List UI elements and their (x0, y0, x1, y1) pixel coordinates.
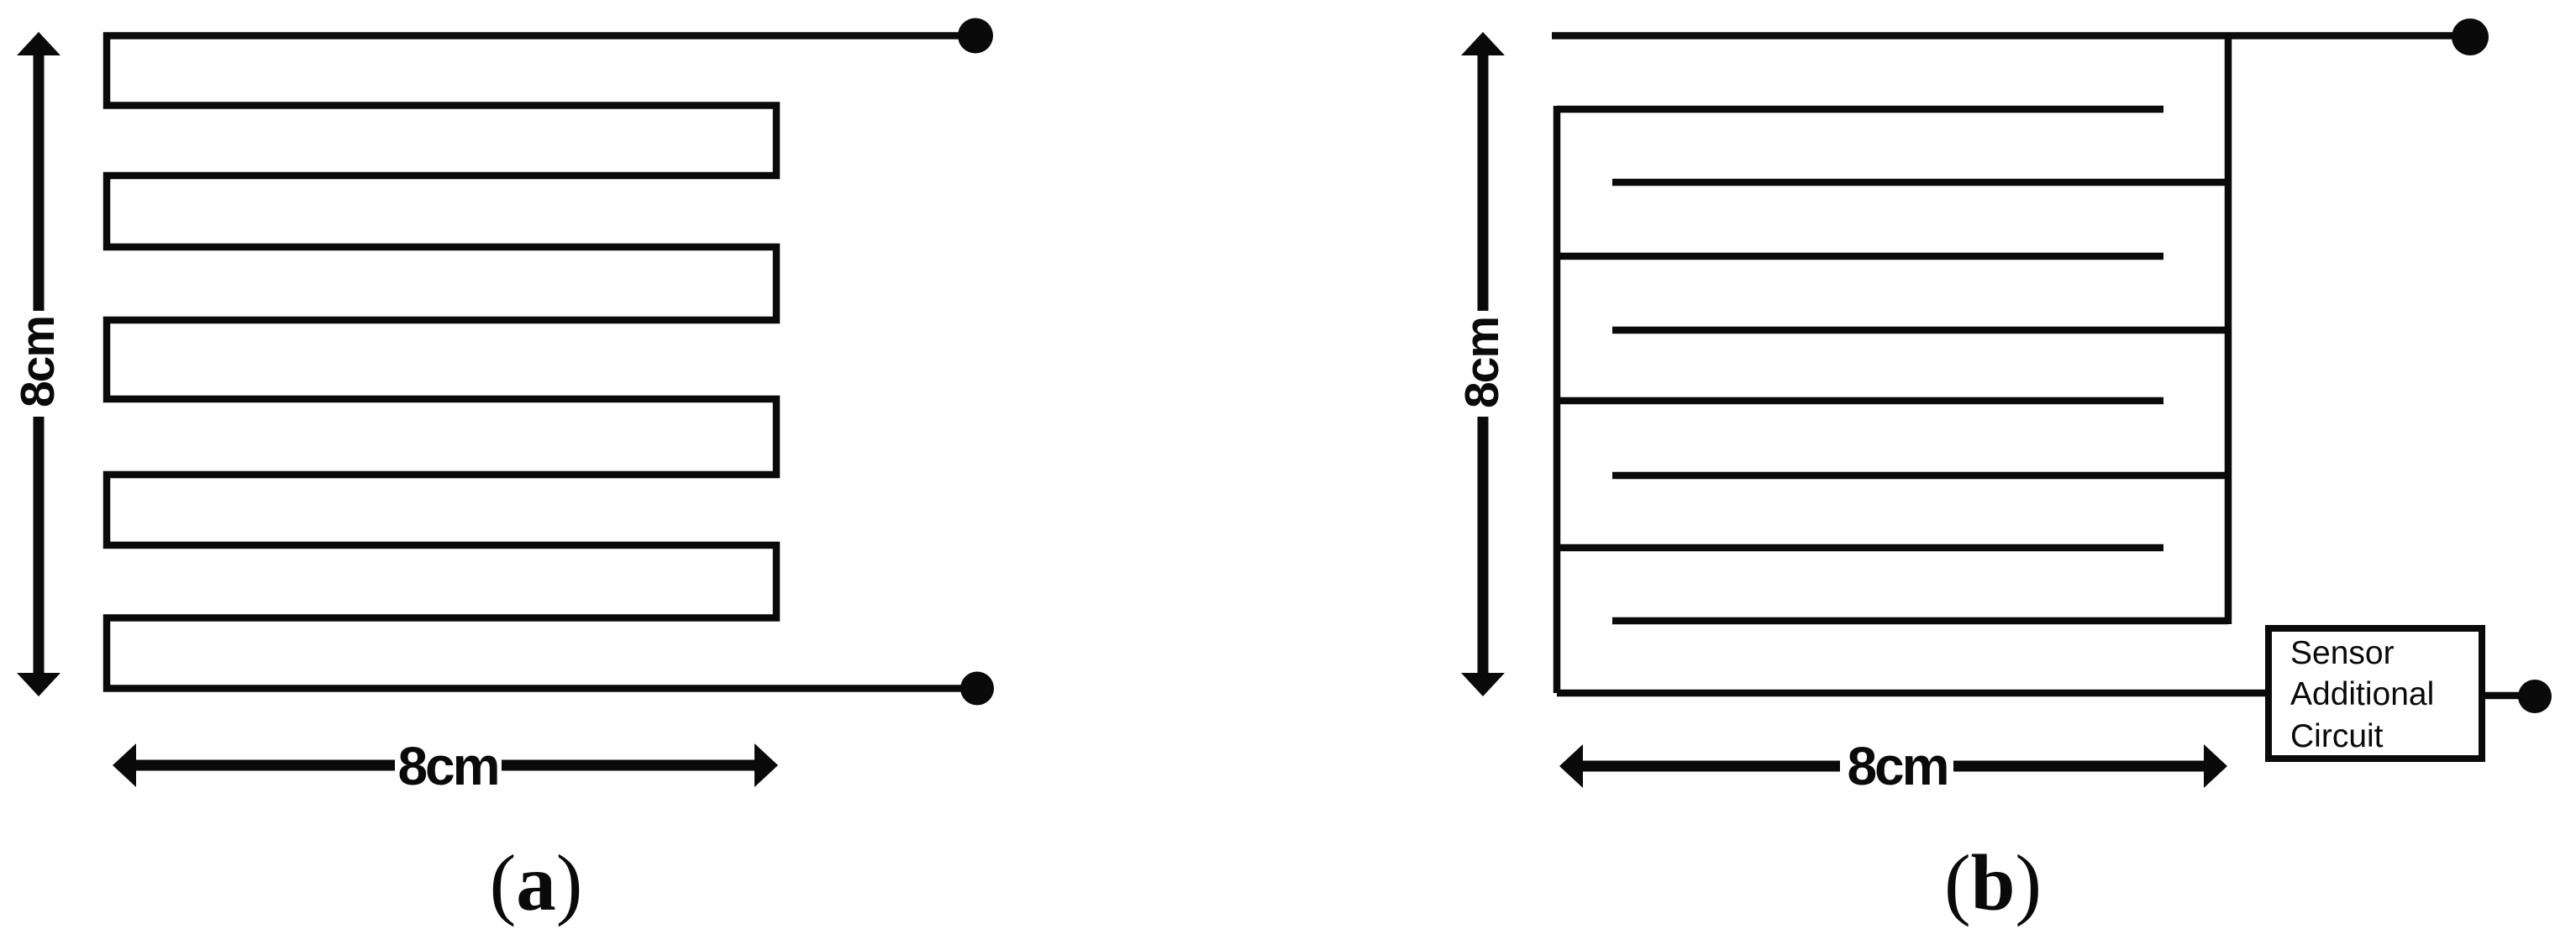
svg-text:8cm: 8cm (1847, 736, 1947, 796)
wire comb A : right bus vertical (b) (2225, 36, 2232, 625)
wire comb B : finger row 8 (b) (1557, 544, 2163, 552)
dimension arrow 8cm vertical (b) : shaft lower (1478, 417, 1489, 676)
wire comb A : finger row 9 (b) (1612, 617, 2228, 625)
dimension arrow 8cm horizontal (a) : shaft left (133, 760, 395, 771)
terminal dot bottom (b) (2518, 680, 2552, 713)
svg-text:Sensor: Sensor (2290, 635, 2395, 671)
wire serpentine coil (a) (107, 36, 975, 689)
dimension arrow 8cm vertical (a) : shaft lower (34, 417, 45, 676)
svg-text:(b): (b) (1944, 838, 2042, 927)
dimension arrow 8cm horizontal (b) : shaft right (1953, 761, 2207, 772)
wire comb B : finger row 4 (b) (1557, 253, 2163, 260)
dimension arrow 8cm horizontal (a) : left arrowhead (113, 743, 136, 787)
svg-text:Additional: Additional (2290, 676, 2434, 712)
terminal dot top (a) (958, 18, 993, 54)
dimension arrow 8cm vertical (b) : bottom arrowhead (1461, 673, 1505, 696)
svg-text:8cm: 8cm (397, 736, 497, 796)
wire comb A : finger row 3 (b) (1612, 179, 2228, 186)
wire comb B : left bus vertical (b) (1553, 106, 1561, 693)
terminal dot bottom (a) (960, 672, 994, 706)
dimension arrow 8cm vertical (a) : bottom arrowhead (17, 673, 60, 696)
svg-text:8cm: 8cm (1455, 318, 1509, 408)
wire from sensor box to terminal dot (b) (2485, 692, 2534, 700)
dimension arrow 8cm horizontal (a) : shaft right (502, 760, 758, 771)
dimension arrow 8cm vertical (a) : shaft upper (34, 52, 45, 311)
dimension arrow 8cm vertical (a) : top arrowhead (17, 32, 60, 55)
dimension arrow 8cm horizontal (b) : left arrowhead (1559, 744, 1583, 788)
dimension arrow 8cm horizontal (b) : shaft left (1580, 761, 1840, 772)
sensor additional circuit box (b) (2268, 628, 2482, 759)
svg-text:(a): (a) (490, 838, 583, 927)
dimension arrow 8cm vertical (b) : shaft upper (1478, 52, 1489, 311)
wire comb B : finger row 6 (b) (1557, 397, 2163, 405)
wire comb A : top line to terminal dot (b) (1552, 32, 2470, 39)
dimension arrow 8cm vertical (b) : top arrowhead (1461, 32, 1505, 55)
svg-text:8cm: 8cm (11, 317, 65, 407)
wire comb A : finger row 7 (b) (1612, 472, 2228, 480)
wire comb B : finger row 2 (b) (1557, 106, 2163, 113)
svg-text:Circuit: Circuit (2290, 718, 2384, 754)
dimension arrow 8cm horizontal (a) : right arrowhead (754, 743, 778, 787)
dimension arrow 8cm horizontal (b) : right arrowhead (2204, 744, 2227, 788)
wire comb B : bottom line into sensor box (b) (1557, 690, 2265, 697)
terminal dot top (b) (2452, 18, 2489, 55)
wire comb A : finger row 5 (b) (1612, 327, 2228, 334)
